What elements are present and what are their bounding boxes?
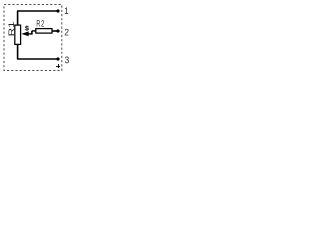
label $ bbox=[25, 26, 29, 31]
marker + near port 3 bbox=[56, 64, 60, 68]
pin label 2 bbox=[65, 29, 69, 36]
label R2 bbox=[37, 20, 44, 26]
wire: into R2 left bbox=[32, 30, 36, 32]
pin label 3 bbox=[65, 57, 69, 64]
wire: from top wire down to R1 bbox=[17, 11, 19, 26]
subcircuit boundary (dashed box) bbox=[4, 5, 62, 71]
wire: R1 bottom down bbox=[17, 44, 19, 59]
wire: R2 to port 2 bbox=[52, 30, 58, 32]
resistor R1 body bbox=[15, 25, 21, 44]
wire: bottom horizontal to port 3 bbox=[17, 58, 58, 60]
label R1 (rotated) bbox=[9, 22, 15, 35]
resistor R2 body bbox=[36, 29, 52, 33]
wire: port 1 top horizontal bbox=[17, 10, 58, 12]
wiper arrow of R1 bbox=[21, 31, 28, 36]
node: port 3 dot bbox=[56, 57, 59, 60]
node: port 1 dot bbox=[56, 9, 59, 12]
node: port 2 dot bbox=[56, 29, 59, 32]
wire: wiper jog up bbox=[31, 31, 33, 35]
pin label 1 bbox=[65, 8, 68, 14]
wire: wiper tail bbox=[28, 33, 32, 35]
